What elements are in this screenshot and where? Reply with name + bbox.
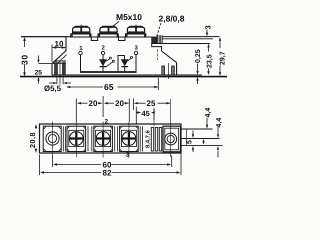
svg-text:0,25: 0,25 — [195, 49, 202, 63]
terminal screw head 3 — [127, 26, 144, 34]
dim 20 second — [104, 99, 130, 123]
svg-text:20: 20 — [89, 99, 98, 108]
svg-text:25: 25 — [35, 70, 43, 77]
right hole centerline — [168, 63, 170, 79]
dim 23.5 — [207, 44, 209, 75]
mounting hole 1 outer circle — [46, 132, 59, 145]
partition 4-gate — [140, 126, 142, 151]
blade end vertical — [185, 129, 187, 146]
dim phi 5.5 extension lines — [49, 78, 71, 85]
notch between terminal 2 and 3 — [119, 37, 125, 41]
terminal screw 3 cross slot — [96, 132, 110, 146]
block 2 inner square — [69, 130, 84, 146]
module top surface — [21, 36, 152, 38]
svg-text:M5x10: M5x10 — [116, 12, 142, 22]
schematic bottom rail wire — [80, 71, 137, 73]
tab ledge line — [152, 43, 210, 45]
blade top line — [162, 36, 219, 38]
terminal pedestal 2 — [98, 34, 118, 37]
notch between terminal 1 and 2 — [91, 37, 97, 41]
svg-text:25: 25 — [147, 99, 156, 108]
blade bottom line — [162, 38, 213, 40]
terminal pedestal 1 — [71, 34, 91, 37]
svg-text:2,8/0,8: 2,8/0,8 — [159, 14, 185, 24]
mounting plane baseline — [20, 76, 227, 78]
right mounting foot outline — [176, 63, 178, 75]
dim 45 — [136, 107, 155, 125]
block 5 mounting square — [163, 126, 181, 152]
svg-text:23,5: 23,5 — [207, 54, 214, 68]
left slope of case — [52, 51, 66, 64]
terminal screw 2 circle — [69, 132, 83, 146]
thyristor T1 aux cathode lead and terminal — [106, 60, 114, 66]
svg-text:4,4: 4,4 — [216, 118, 223, 128]
node 1 terminal circle — [79, 51, 82, 54]
screw 1 stud centerline — [80, 25, 82, 28]
svg-text:4,4: 4,4 — [205, 108, 212, 118]
dim 5 — [192, 131, 194, 153]
partition 1-2 — [63, 126, 65, 151]
thyristor T2 gate lead and terminal — [128, 56, 133, 61]
svg-text:45: 45 — [142, 109, 150, 118]
left foot slot wall hatched left — [55, 63, 58, 75]
right slope of case — [162, 51, 177, 63]
terminal screw 4 circle — [122, 132, 136, 146]
hole 1 centerline — [52, 122, 54, 157]
thyristor T1 — [100, 60, 107, 72]
dim 30 extension line top — [21, 36, 66, 38]
block 1 mounting hole square — [43, 126, 61, 151]
mounting hole 2 inner circle — [167, 135, 174, 142]
module left edge — [65, 37, 67, 51]
terminal screw head 2 — [100, 26, 117, 34]
right foot slot wall hatched left — [162, 66, 165, 75]
dim 4.4 upper — [202, 118, 208, 145]
block 3 corner chamfers — [94, 126, 112, 151]
dim 20.8 — [35, 124, 37, 153]
dim 25 — [37, 56, 52, 84]
left hole centerline — [59, 61, 61, 85]
ledge under tabs — [152, 44, 162, 52]
terminal screw head 1 — [73, 26, 90, 34]
dim 3 — [206, 30, 208, 37]
wire pin3 down — [135, 55, 137, 72]
gate blade lines right of plan view — [181, 128, 213, 130]
block 2 corner chamfers — [67, 126, 85, 151]
svg-text:29,7: 29,7 — [220, 51, 227, 65]
block 3 centerline — [102, 122, 104, 158]
svg-text:20,8: 20,8 — [28, 132, 37, 148]
gate faston tab blades (edge view) — [158, 35, 163, 44]
svg-text:8,4,7,6: 8,4,7,6 — [145, 129, 152, 148]
left slot counterbore lip — [54, 60, 66, 62]
right foot slot wall hatched right — [172, 66, 175, 75]
block 2 terminal square — [67, 126, 86, 151]
wire pin1 down — [80, 55, 82, 72]
hole 2 centerline — [170, 99, 172, 157]
terminal screw 4 cross slot — [122, 132, 136, 146]
wire link from bottom rail up and over to T2 anode — [118, 56, 124, 72]
left mounting foot outline — [52, 63, 66, 75]
centerline extension right — [181, 138, 220, 140]
svg-text:82: 82 — [103, 169, 112, 178]
partition 3-4 — [115, 126, 118, 151]
block 3 inner square — [96, 130, 111, 146]
dim 29.7 — [219, 37, 221, 76]
dim 20 first — [76, 96, 103, 122]
block 4 centerline — [128, 122, 130, 158]
block 1 corner chamfers — [44, 127, 62, 152]
mounting hole 1 inner circle — [48, 134, 56, 142]
gate area centerline — [153, 108, 155, 126]
module bottom edge — [52, 74, 202, 76]
plan outline rectangle — [40, 124, 182, 153]
svg-text:20: 20 — [115, 99, 124, 108]
block 4 inner square — [121, 130, 136, 146]
dim 60 — [53, 156, 172, 168]
block 4 corner chamfers — [120, 126, 138, 151]
block 2 centerline — [75, 122, 77, 157]
block 5 inner square — [165, 128, 179, 150]
left foot slot wall hatched right — [63, 63, 66, 75]
dim 4.4 lower — [217, 127, 219, 158]
svg-text:Ø5,5: Ø5,5 — [44, 84, 62, 93]
node 2 terminal circle — [101, 51, 104, 54]
leader 2,8/0,8 — [157, 23, 161, 36]
block 3 terminal square — [94, 126, 113, 151]
leader M5x10 — [111, 22, 120, 29]
thyristor T1 gate lead and terminal — [106, 57, 111, 61]
lower blade line — [181, 145, 223, 147]
block 4 terminal square — [120, 126, 139, 151]
gate tab centerline — [157, 49, 159, 60]
node 3 terminal circle — [134, 51, 137, 54]
screw 3 stud centerline — [135, 25, 137, 28]
dim 82 — [40, 153, 182, 176]
dim 25 — [133, 99, 170, 111]
gate tab base block hatched — [152, 37, 157, 44]
terminal screw 2 cross slot — [69, 132, 83, 146]
wire pin2 down — [102, 55, 104, 60]
dim 0.25 — [196, 64, 198, 85]
svg-text:3: 3 — [204, 25, 213, 29]
svg-text:65: 65 — [104, 82, 114, 92]
partition 2-3 — [88, 126, 92, 151]
gate terminal tabs in plan — [151, 128, 161, 152]
svg-text:3: 3 — [126, 152, 130, 159]
svg-text:2: 2 — [105, 119, 109, 126]
svg-text:5: 5 — [187, 140, 194, 144]
dim 10 — [52, 45, 66, 63]
terminal screw 3 circle — [96, 132, 110, 146]
terminal pedestal 3 — [126, 34, 146, 37]
dim 65 — [66, 78, 158, 90]
thyristor T2 — [121, 60, 128, 72]
dim 30 — [23, 37, 26, 76]
svg-text:30: 30 — [19, 54, 29, 65]
mounting hole 2 outer circle — [165, 133, 177, 145]
svg-text:10: 10 — [55, 40, 64, 49]
